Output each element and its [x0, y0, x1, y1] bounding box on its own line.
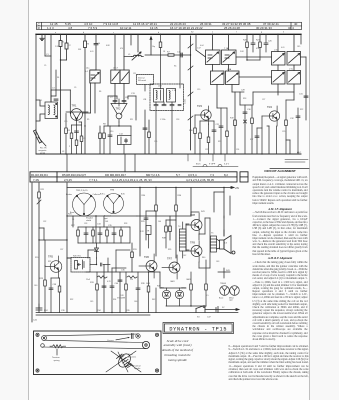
svg-text:DR MR,R15,R17: DR MR,R15,R17 — [105, 173, 126, 177]
resistor R38 filler — [169, 226, 172, 232]
svg-text:DYNATRON - TP15: DYNATRON - TP15 — [169, 326, 227, 332]
zigzag resistor on feedback — [97, 276, 137, 278]
driver stage verticals — [140, 188, 224, 259]
pointer control spindle — [130, 364, 134, 367]
on/off switch S3 — [196, 306, 205, 313]
svg-text:TR3: TR3 — [197, 104, 202, 108]
svg-text:C11: C11 — [133, 73, 136, 75]
internal FM aerial dashed box — [137, 75, 154, 85]
svg-text:Cursor: Cursor — [107, 339, 114, 342]
TR4 surround — [240, 100, 300, 154]
label fits TR magnetic aerial — [39, 147, 47, 155]
resistor R14 filler2 — [148, 132, 151, 138]
transistor TR7 (driver 2) — [162, 255, 180, 279]
pointer tension spring — [56, 349, 58, 355]
component location table (top) — [37, 22, 302, 29]
resistor R1 — [59, 34, 62, 154]
TR3 surround components — [194, 108, 229, 154]
svg-text:7 9 13 14 8: 7 9 13 14 8 — [103, 22, 118, 26]
junction dots upper — [60, 34, 279, 155]
FM tuner dashed enclosure — [150, 84, 184, 111]
svg-text:3,6 5,4: 3,6 5,4 — [188, 173, 197, 177]
diode MR1 (circled) — [162, 288, 170, 306]
svg-text:9 OFF: 9 OFF — [209, 164, 216, 166]
wire aerial left leads — [36, 100, 51, 121]
svg-text:spot: spot — [229, 299, 233, 302]
svg-text:B1.5: B1.5 — [196, 164, 201, 166]
capacitor C16 filler — [54, 99, 58, 100]
IF transformer T2 pair below — [211, 71, 240, 108]
svg-text:0.01: 0.01 — [281, 47, 285, 49]
svg-text:7,7 3,1: 7,7 3,1 — [89, 178, 98, 182]
svg-text:C19: C19 — [197, 89, 200, 91]
transistor TR9 (output lower) — [186, 241, 202, 262]
label tension spring — [52, 357, 60, 362]
svg-text:R10: R10 — [110, 131, 113, 133]
tension spring — [50, 345, 66, 348]
svg-text:7 6 5 9: 7 6 5 9 — [88, 26, 98, 30]
battery arrow — [205, 307, 239, 313]
wire filler second pass lower — [39, 192, 230, 278]
bottom resistor row — [96, 260, 208, 313]
svg-text:470: 470 — [120, 48, 123, 50]
svg-text:TR1: TR1 — [72, 104, 77, 108]
svg-text:7,3: 7,3 — [210, 173, 214, 177]
resistor R7 on link — [168, 54, 174, 56]
svg-text:4,2 9,2,5,4,2,06, 65,35: 4,2 9,2,5,4,2,06, 65,35 — [186, 178, 214, 182]
svg-text:7,4N: 7,4N — [33, 178, 39, 182]
svg-text:C27: C27 — [262, 99, 265, 101]
svg-text:B.E.C.: B.E.C. — [100, 194, 106, 196]
svg-text:shield: shield — [86, 220, 91, 222]
table row R values — [47, 26, 294, 30]
svg-text:c: c — [113, 32, 114, 34]
svg-text:Base: Base — [219, 298, 223, 300]
transistor TR6 (driver) — [139, 254, 157, 278]
transistor TR4 — [262, 106, 280, 126]
svg-text:C24: C24 — [236, 149, 239, 151]
svg-text:C 13b: C 13b — [160, 119, 166, 121]
svg-text:spring: spring — [54, 359, 61, 362]
svg-text:4 8: 4 8 — [68, 26, 73, 30]
ferrite rod (hatched diagonal bar) — [34, 130, 42, 143]
svg-text:R34: R34 — [113, 299, 116, 301]
capacitor C7 — [113, 101, 117, 102]
svg-text:R18: R18 — [243, 98, 246, 100]
table row C values — [50, 22, 298, 26]
svg-text:L6 L7: L6 L7 — [113, 68, 119, 70]
svg-text:8,2: 8,2 — [224, 173, 228, 177]
svg-text:spot: spot — [104, 217, 108, 220]
wire upper filler runs — [45, 34, 306, 154]
svg-text:34 4: 34 4 — [288, 26, 294, 30]
svg-text:TR8&9: TR8&9 — [220, 283, 226, 285]
label internal FM aerial — [138, 76, 146, 82]
wire lower left verticals — [32, 183, 67, 322]
resistor R21 — [38, 192, 41, 198]
svg-text:2,5,25: 2,5,25 — [64, 178, 72, 182]
DYNATRON TP15 box inner — [164, 324, 232, 332]
output pair base diagram TR9 — [230, 286, 240, 296]
svg-text:1K5: 1K5 — [297, 46, 300, 48]
svg-text:C40: C40 — [34, 285, 37, 287]
wire rail stubs to table — [67, 154, 135, 172]
wire left bus down — [35, 34, 37, 154]
wire mid links to volume — [67, 258, 110, 266]
coil L5 with trimmer — [132, 34, 144, 60]
transistor TR1 — [66, 109, 88, 125]
wire speaker links — [217, 230, 225, 249]
IF transformer L4 (box with trimmer arrows) — [90, 70, 100, 113]
transistor TR8 (output upper) — [186, 213, 202, 234]
svg-text:L 1B: L 1B — [172, 90, 177, 92]
svg-text:10p: 10p — [152, 46, 155, 48]
label TR6 pins — [100, 194, 125, 220]
svg-text:0.04: 0.04 — [200, 45, 204, 47]
coupling network cluster — [77, 227, 130, 243]
bottom return bus — [36, 313, 238, 316]
wire lower filler runs — [67, 216, 224, 313]
page right edge — [309, 0, 311, 400]
voltage table row2 text — [33, 178, 214, 182]
svg-text:R22: R22 — [300, 109, 303, 111]
capacitor C4 — [94, 34, 98, 70]
svg-text:13 15: 13 15 — [150, 26, 158, 30]
label control spindle — [134, 365, 141, 370]
value labels lower sprinkle — [34, 219, 219, 303]
wire x151 with up arrow — [150, 37, 152, 55]
coil L2B — [167, 89, 176, 103]
svg-text:C32: C32 — [43, 221, 46, 223]
svg-text:R4: R4 — [57, 77, 59, 79]
svg-text:L 3A: L 3A — [227, 68, 232, 71]
svg-text:C37: C37 — [60, 249, 63, 251]
svg-text:spindle: spindle — [134, 368, 141, 370]
capacitor C20 filler2 — [143, 128, 147, 129]
svg-text:R1,R2,R3,R4: R1,R2,R3,R4 — [31, 173, 48, 177]
svg-text:R32: R32 — [70, 299, 73, 301]
wire right mid horizontals — [232, 57, 294, 92]
resistor R22 filler — [234, 120, 237, 126]
svg-text:R42: R42 — [152, 299, 155, 301]
resistor R3 — [84, 34, 87, 154]
svg-text:C29: C29 — [282, 131, 285, 133]
svg-text:220: 220 — [130, 279, 133, 281]
svg-text:TR5: TR5 — [48, 255, 53, 259]
svg-text:MR T,2 4,6: MR T,2 4,6 — [146, 173, 160, 177]
wire TR2 emitter chain — [103, 122, 131, 154]
svg-text:10 12 11: 10 12 11 — [120, 26, 132, 30]
battery cap C41 — [36, 304, 42, 310]
svg-text:R15: R15 — [218, 141, 221, 143]
page left edge — [28, 0, 30, 400]
transistor TR3 — [195, 106, 211, 124]
pointer line to aerial label — [38, 137, 46, 146]
svg-text:TR2: TR2 — [116, 107, 121, 111]
spindle inset drum — [116, 352, 133, 370]
speaker LS — [220, 236, 236, 255]
svg-text:40: 40 — [294, 22, 298, 26]
svg-text:C9: C9 — [74, 87, 76, 89]
heavy rule above circuit alignment — [270, 168, 309, 170]
DYNATRON TP15 box outer — [163, 323, 234, 334]
svg-text:Tension: Tension — [52, 357, 60, 359]
IF transformer T3 pair (far right upper) — [272, 34, 301, 70]
svg-text:5,7: 5,7 — [176, 173, 180, 177]
svg-text:R17: R17 — [250, 139, 253, 141]
svg-text:T 1A: T 1A — [224, 47, 229, 50]
table row labels C and R — [38, 22, 40, 30]
corner screw top-left — [36, 333, 39, 336]
tuning gang heavy line — [190, 36, 192, 150]
diode D1 in mid network — [95, 243, 99, 258]
driver transformer T4 (hatched) — [180, 222, 187, 258]
svg-text:R26 VOL: R26 VOL — [73, 255, 82, 257]
svg-text:C18: C18 — [176, 119, 179, 121]
label volume control — [117, 295, 126, 300]
svg-text:C5: C5 — [44, 65, 46, 67]
voltage table row1 text — [31, 173, 228, 177]
wire tuner verticals — [156, 34, 180, 154]
svg-text:d: d — [158, 32, 159, 34]
wire diode row top — [160, 287, 186, 289]
small network box C14 — [118, 126, 132, 154]
transistor base diagram TR1-5 — [73, 193, 96, 216]
svg-text:1 2 3: 1 2 3 — [47, 26, 54, 30]
voltage table (second header) — [30, 172, 237, 182]
gang trimmer marks — [188, 44, 193, 120]
svg-text:5.4 V: 5.4 V — [224, 164, 230, 166]
aerial transformer L1/L2 box — [45, 102, 58, 119]
output pair base diagram TR8 — [220, 286, 230, 296]
IF transformer T4 pair (far right lower) — [272, 71, 301, 101]
value labels upper sprinkle — [44, 45, 303, 151]
resistor R2 — [61, 34, 69, 60]
label shaft — [128, 353, 136, 358]
corner screw bottom-left — [36, 369, 39, 372]
svg-text:R6: R6 — [99, 91, 101, 93]
capacitor C8 — [122, 101, 126, 102]
svg-text:TR6: TR6 — [144, 255, 149, 259]
svg-text:R40: R40 — [202, 257, 205, 259]
svg-text:C45: C45 — [90, 301, 93, 303]
label R20 C25 — [243, 40, 273, 43]
spindle crossing cords — [106, 351, 141, 372]
transistor TR2 (mixer, funnel) — [111, 99, 127, 122]
wire to L5 from left — [124, 56, 132, 58]
capacitor C33 filler — [304, 96, 308, 97]
svg-text:VOLUME: VOLUME — [117, 298, 126, 300]
svg-text:100: 100 — [158, 221, 161, 223]
corner screw bottom-right — [155, 369, 158, 372]
pulley left — [42, 336, 47, 341]
svg-text:25 26 24 28: 25 26 24 28 — [224, 26, 240, 30]
svg-text:+9V: +9V — [235, 187, 240, 190]
capacitor C40 filler — [102, 286, 106, 287]
svg-text:ALC: ALC — [297, 151, 302, 154]
IF transformer L6 double box — [111, 34, 129, 99]
label C7 C8 — [110, 97, 128, 99]
cursor marker — [132, 334, 134, 339]
transistor base diagram TR6 — [104, 194, 124, 214]
drive drum right — [142, 341, 149, 348]
svg-text:R39: R39 — [168, 249, 171, 251]
HT supply top rail — [36, 33, 301, 35]
output transformer T5 (hatched) — [211, 236, 217, 252]
pulley left lower — [41, 344, 45, 348]
driver stage components — [144, 205, 177, 248]
TR1 bias components — [65, 114, 83, 155]
under-rail voltage labels — [196, 164, 230, 166]
svg-text:30 29 31 33: 30 29 31 33 — [256, 26, 272, 30]
wire output stage links — [191, 212, 210, 268]
misc labels upper — [46, 48, 304, 154]
svg-text:R20: R20 — [35, 257, 38, 259]
svg-text:OA81: OA81 — [186, 278, 191, 281]
volume pot — [75, 260, 85, 269]
capacitor C36 filler — [118, 280, 122, 281]
pulley right top — [136, 334, 140, 338]
rail tick labels — [55, 32, 284, 34]
svg-text:C46: C46 — [134, 301, 137, 303]
wire extra lower verticals — [108, 250, 130, 272]
misc labels lower — [44, 214, 214, 313]
svg-text:R25: R25 — [48, 261, 51, 263]
cord lower run — [43, 347, 147, 349]
svg-text:TR9: TR9 — [190, 241, 195, 245]
svg-text:R11: R11 — [130, 119, 133, 121]
junction dots lower — [38, 187, 224, 313]
svg-text:16 17 19 18 20 21 23 22: 16 17 19 18 20 21 23 22 — [170, 26, 203, 30]
bottom rail of upper section — [36, 153, 301, 155]
cord bottom run — [44, 340, 143, 342]
volume control dashed box — [71, 258, 90, 273]
svg-text:R5,R8,R10,R12,R7: R5,R8,R10,R12,R7 — [62, 173, 87, 177]
diode MR2 (circled) — [175, 288, 183, 306]
IF transformer T1 pair (upper right-centre) — [206, 34, 237, 71]
label TR8 and 9 — [219, 283, 234, 302]
label emitter/collector — [66, 193, 100, 222]
resistor chain top right — [246, 34, 268, 60]
horizontal wire y272 — [86, 271, 160, 273]
resistor R9 filler — [99, 133, 102, 139]
svg-text:g: g — [261, 32, 262, 34]
svg-text:TR1,2,3,4 5: TR1,2,3,4 5 — [76, 190, 88, 192]
svg-text:R28: R28 — [124, 223, 127, 225]
label cursor with arrow — [107, 337, 130, 342]
svg-text:C43: C43 — [216, 261, 219, 263]
svg-text:TR4: TR4 — [267, 105, 272, 109]
svg-text:C10: C10 — [64, 121, 67, 123]
corner screw top-right — [155, 333, 158, 336]
resistor R31 filler — [131, 252, 134, 258]
wire FM aerial lead — [144, 85, 146, 92]
svg-text:9,2,4,25,4,6,4,45,2,4, 25, 35,: 9,2,4,25,4,6,4,45,2,4, 25, 35, 9V — [112, 178, 152, 182]
svg-text:C15: C15 — [154, 141, 157, 143]
capacitor C12 on link — [181, 53, 182, 57]
svg-text:C33: C33 — [84, 223, 87, 225]
tuner caps row — [154, 105, 181, 106]
under-rail stub wires — [188, 154, 308, 167]
svg-text:R: R — [38, 26, 40, 30]
svg-text:1.5: 1.5 — [206, 295, 209, 297]
arrow marker on x39 — [37, 200, 41, 204]
svg-text:OA81: OA81 — [170, 280, 175, 283]
svg-text:B.M.: B.M. — [121, 194, 125, 196]
svg-text:h: h — [283, 32, 284, 34]
+9V supply rail (lower) — [67, 187, 234, 189]
ground (top left) — [40, 34, 44, 40]
TR5 network — [39, 240, 67, 313]
transistor TR5 — [45, 256, 62, 278]
svg-text:0.01: 0.01 — [90, 51, 94, 53]
svg-text:adjusters: adjusters — [128, 355, 136, 358]
coil L1B — [154, 89, 164, 103]
svg-text:C22: C22 — [205, 149, 208, 151]
cord top run — [44, 334, 138, 336]
voltage table small right box — [240, 172, 248, 182]
horizontal link wire y55 — [145, 54, 191, 56]
svg-text:C42: C42 — [183, 255, 186, 257]
svg-text:R5: R5 — [87, 119, 89, 121]
svg-text:FM aerial: FM aerial — [138, 79, 146, 82]
svg-text:TR7: TR7 — [167, 257, 172, 261]
wire x51 to aerial coil — [50, 34, 52, 102]
mid network horizontal bus y216 — [67, 216, 137, 243]
wire filler second pass upper — [51, 90, 290, 154]
dial cord diagram frame — [34, 331, 162, 375]
